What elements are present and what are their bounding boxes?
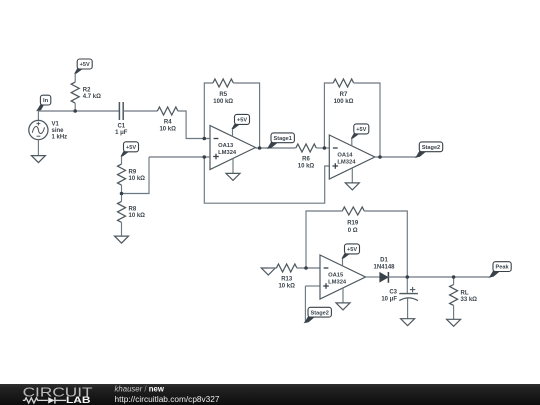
svg-text:R9: R9: [129, 169, 137, 175]
svg-text:1 kHz: 1 kHz: [52, 135, 68, 141]
svg-text:LM324: LM324: [337, 160, 356, 166]
svg-text:sine: sine: [52, 128, 65, 134]
svg-text:Stage2: Stage2: [311, 310, 329, 316]
svg-text:LM324: LM324: [218, 150, 237, 156]
svg-text:R13: R13: [281, 276, 293, 282]
svg-text:RL: RL: [461, 290, 469, 296]
svg-text:R6: R6: [302, 156, 310, 162]
svg-text:10 kΩ: 10 kΩ: [129, 176, 146, 182]
svg-text:OA14: OA14: [337, 152, 353, 158]
svg-text:OA15: OA15: [328, 272, 344, 278]
svg-text:10 μF: 10 μF: [381, 296, 397, 302]
svg-text:In: In: [43, 98, 49, 104]
svg-text:D1: D1: [380, 258, 388, 264]
svg-text:LAB: LAB: [66, 395, 91, 405]
svg-text:C3: C3: [389, 289, 397, 295]
svg-text:+5V: +5V: [126, 145, 136, 151]
svg-text:10 kΩ: 10 kΩ: [129, 213, 146, 219]
svg-text:http://circuitlab.com/cp8v327: http://circuitlab.com/cp8v327: [115, 395, 220, 404]
svg-text:V1: V1: [52, 122, 60, 128]
svg-text:Stage1: Stage1: [274, 136, 292, 142]
svg-text:OA13: OA13: [218, 143, 234, 149]
svg-text:10 kΩ: 10 kΩ: [278, 284, 295, 290]
svg-text:100 kΩ: 100 kΩ: [334, 99, 354, 105]
svg-text:Peak: Peak: [496, 265, 510, 271]
svg-text:R19: R19: [347, 221, 359, 227]
svg-text:LM324: LM324: [328, 280, 347, 286]
svg-text:10 kΩ: 10 kΩ: [298, 163, 315, 169]
svg-text:R4: R4: [164, 119, 172, 125]
svg-text:khauser / new: khauser / new: [115, 385, 165, 394]
svg-text:10 kΩ: 10 kΩ: [159, 127, 176, 133]
svg-text:100 kΩ: 100 kΩ: [213, 99, 233, 105]
svg-text:+5V: +5V: [347, 247, 357, 253]
svg-text:4.7 kΩ: 4.7 kΩ: [83, 94, 101, 100]
svg-text:0 Ω: 0 Ω: [348, 228, 358, 234]
svg-text:R2: R2: [83, 88, 91, 94]
svg-text:33 kΩ: 33 kΩ: [461, 297, 478, 303]
svg-text:C1: C1: [117, 123, 125, 129]
svg-text:R7: R7: [340, 92, 348, 98]
svg-text:Stage2: Stage2: [422, 145, 440, 151]
svg-text:+5V: +5V: [356, 127, 366, 133]
svg-text:1 μF: 1 μF: [115, 130, 128, 136]
svg-text:R5: R5: [219, 92, 227, 98]
svg-text:R8: R8: [129, 207, 137, 213]
svg-text:+5V: +5V: [237, 118, 247, 124]
svg-text:1N4148: 1N4148: [373, 264, 395, 270]
svg-text:+5V: +5V: [80, 62, 90, 68]
